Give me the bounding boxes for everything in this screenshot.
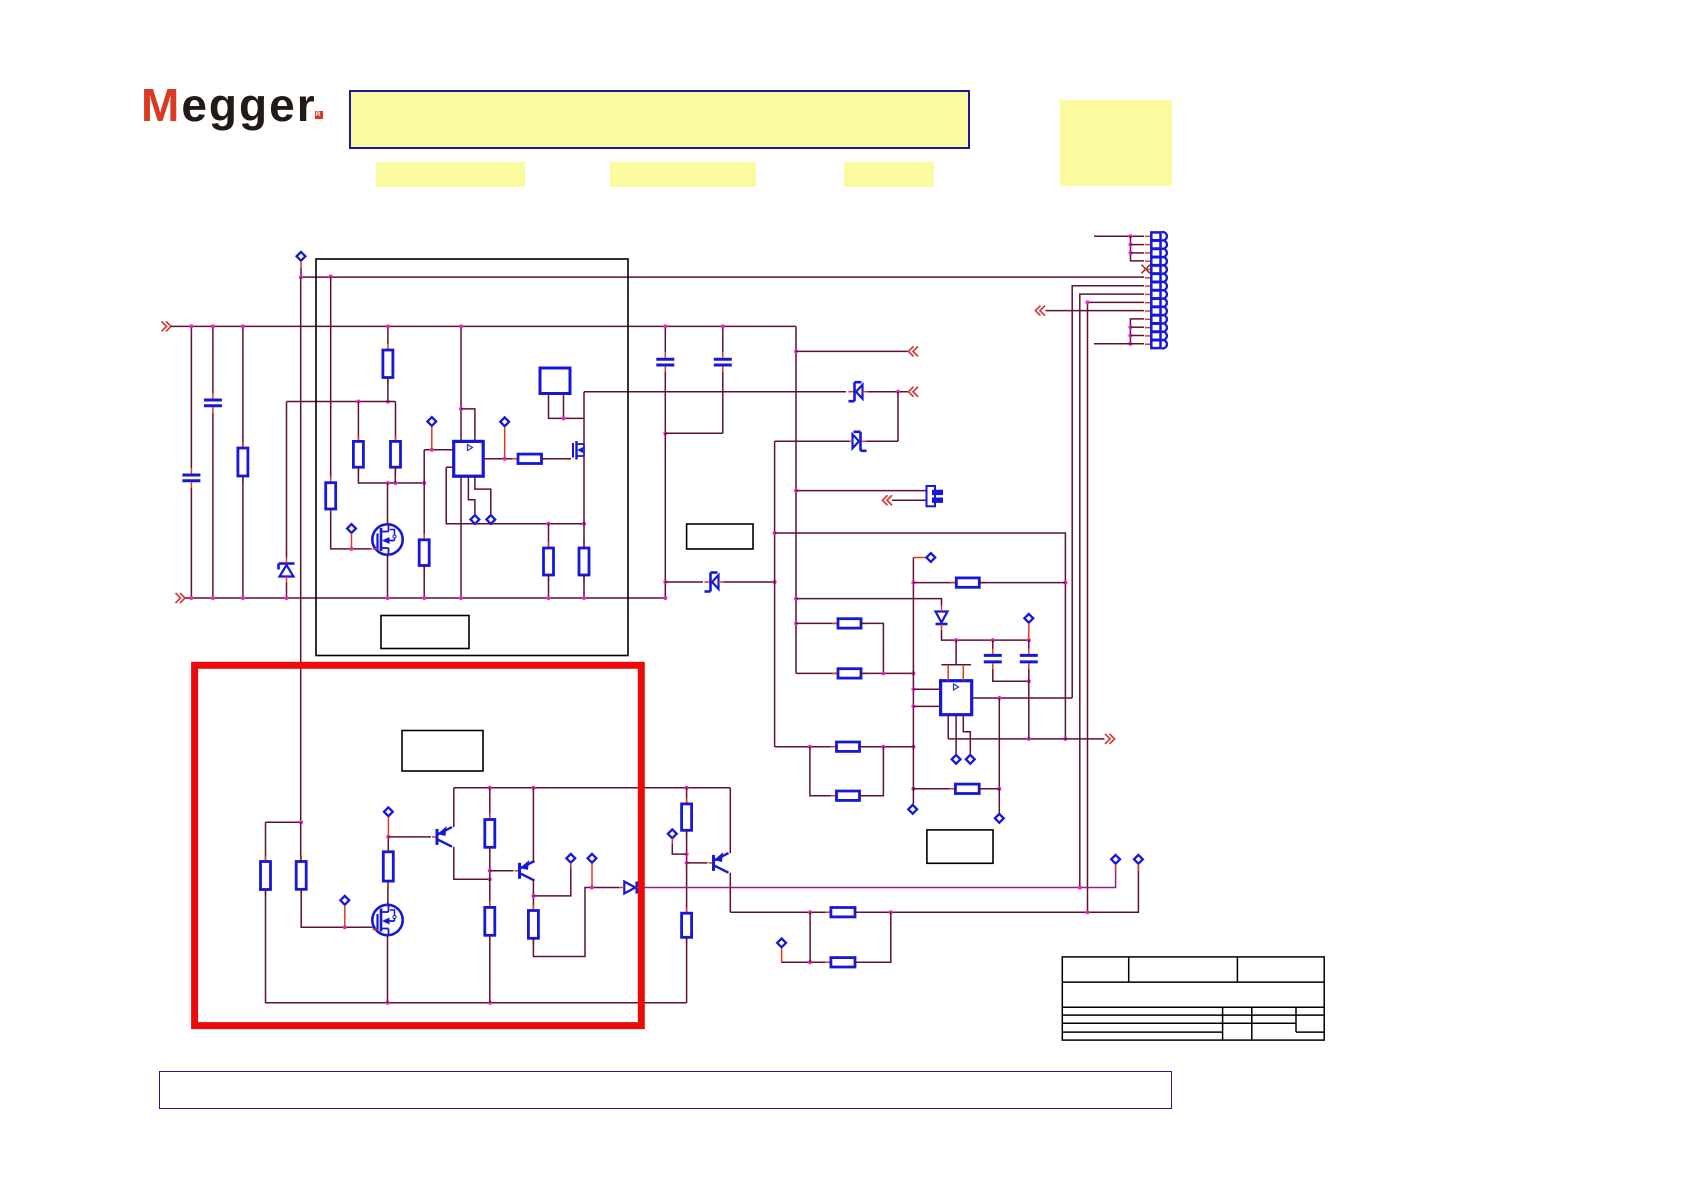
transformer T1: [540, 368, 570, 394]
wire IC2 top bar: [941, 664, 971, 666]
net port chevron C: [1036, 306, 1046, 316]
wire loop 962 right: [855, 912, 891, 962]
net node H diamond: [908, 805, 917, 814]
wire cap join: [665, 432, 723, 434]
capacitor C4: [714, 352, 732, 372]
junction: [721, 324, 725, 328]
wire bus pin9: [1088, 302, 1145, 912]
junction: [393, 481, 397, 485]
wire IC1 pinA jog: [468, 476, 475, 514]
junction: [211, 324, 215, 328]
transistor Q3 power MOSFET: [372, 902, 402, 938]
no-connect marker pin5: [1142, 265, 1151, 274]
zener diode D1: [279, 558, 295, 583]
junction: [189, 596, 193, 600]
resistor R1: [238, 442, 248, 482]
junction: [911, 687, 915, 691]
wire R17 top: [300, 822, 302, 861]
resistor R23: [682, 907, 692, 943]
resistor R17: [296, 856, 306, 896]
wire D2 to chevron: [868, 391, 909, 393]
net node C diamond: [427, 417, 436, 426]
resistor R4: [353, 435, 363, 473]
wire pin10 net: [1046, 310, 1145, 312]
wire loop 962 vert: [809, 912, 811, 962]
junction: [773, 580, 777, 584]
wire IC2 pin b2: [955, 715, 957, 755]
wire R2 to gate: [331, 509, 366, 549]
wire vert 913: [912, 558, 914, 785]
wire IC1 fb: [446, 466, 454, 468]
wire C2 top: [212, 326, 214, 393]
junction: [189, 324, 193, 328]
label box driver: [402, 731, 483, 772]
junction: [911, 745, 915, 749]
wire diamond K stub: [1028, 623, 1030, 640]
wire C5 out: [993, 669, 1029, 681]
wire pin12 stub: [1130, 326, 1144, 328]
junction: [997, 696, 1001, 700]
connector J2 2-pin header: [927, 486, 944, 506]
wire out net 912: [730, 911, 831, 913]
wire R8 top: [548, 524, 550, 548]
op-amp U2: [941, 681, 972, 715]
junction: [896, 390, 900, 394]
label box PSU: [381, 616, 469, 649]
wire C4 bottom: [722, 372, 724, 433]
box power supply outline: [316, 259, 628, 656]
resistor R3: [383, 344, 393, 384]
wire 999 end: [998, 789, 1000, 813]
wire R14 left: [913, 582, 956, 584]
wire T1 right leg: [563, 394, 565, 419]
wire diamond C stub: [431, 427, 433, 450]
transistor Q5: [515, 861, 535, 881]
wire diamond N stub: [387, 817, 389, 837]
wire R22 top: [686, 788, 688, 804]
junction: [386, 400, 390, 404]
wire R17 to gate: [301, 889, 366, 927]
logo registered mark: [315, 111, 323, 119]
wire D3 left: [775, 440, 849, 442]
wire pair2 right: [860, 746, 914, 748]
junction: [285, 596, 289, 600]
wire QB base: [490, 870, 514, 872]
junction: [808, 960, 812, 964]
junction: [1129, 251, 1133, 255]
wire D4 right: [724, 581, 775, 583]
wire pins11-14 bus: [1130, 319, 1144, 344]
junction: [422, 481, 426, 485]
junction: [1027, 679, 1031, 683]
junction: [488, 1001, 492, 1005]
wire IC2 pin b1: [947, 715, 949, 739]
wire out vert 999: [998, 698, 1000, 789]
wire Q1 gate: [366, 548, 372, 550]
junction: [1129, 243, 1133, 247]
wire diamond F stub: [504, 427, 506, 459]
wire Q4 collector: [454, 847, 490, 880]
junction: [1027, 737, 1031, 741]
wire C1 top: [190, 326, 192, 468]
wire IC1 vcc jog: [461, 409, 475, 442]
capacitor C6: [1020, 648, 1038, 669]
wire header bottom: [892, 499, 926, 501]
transistor Q4: [432, 827, 452, 847]
wire pair1 bottom: [796, 672, 838, 674]
wire pair2 loop right: [860, 747, 884, 796]
junction: [685, 861, 689, 865]
wire IC1 in vert: [423, 450, 425, 534]
wire R19 top: [489, 788, 491, 820]
wire D3 right: [867, 440, 899, 442]
wire pair1 top right: [861, 623, 883, 673]
wire IC1 in: [424, 449, 454, 451]
junction: [1063, 737, 1067, 741]
wire C2 bottom: [212, 413, 214, 598]
wire D1 top: [286, 402, 288, 558]
net port IN+ chevron: [162, 321, 172, 331]
wire Q3 drain: [387, 881, 389, 905]
wire top rail redbox: [454, 787, 731, 789]
wire R3 bottom: [387, 378, 389, 402]
wire pins1-4 bus: [1131, 236, 1145, 261]
wire C3 top: [664, 326, 666, 352]
junction: [1086, 910, 1090, 914]
wire Q6 emitter: [729, 788, 731, 854]
resistor R11: [832, 669, 867, 678]
junction: [422, 596, 426, 600]
wire C6 out: [1028, 669, 1030, 739]
junction: [343, 925, 347, 929]
wire top rail: [171, 325, 796, 327]
net node L diamond: [995, 814, 1004, 823]
label box right: [927, 830, 993, 863]
wire pin14 feed: [1094, 343, 1144, 345]
resistor R24: [825, 908, 861, 917]
wire IC2 bar feed: [955, 640, 957, 665]
junction: [794, 349, 798, 353]
junction: [1078, 886, 1082, 890]
wire branch left: [266, 821, 302, 823]
Megger logo: [141, 82, 317, 128]
junction: [329, 275, 333, 279]
wire R15 right: [979, 788, 999, 790]
wire Q3 source: [387, 935, 389, 1003]
junction: [663, 596, 667, 600]
junction: [211, 596, 215, 600]
junction: [881, 671, 885, 675]
net node P diamond: [588, 854, 597, 863]
net node Q diamond: [668, 829, 677, 838]
net node G diamond: [926, 553, 935, 562]
junction: [386, 835, 390, 839]
wire 598 to diode: [796, 599, 942, 606]
junction: [503, 457, 507, 461]
yellow box top right: [1060, 100, 1173, 186]
net node M diamond: [340, 896, 349, 905]
junction: [685, 852, 689, 856]
junction: [1129, 234, 1133, 238]
junction: [241, 324, 245, 328]
wire diamond A stub: [300, 261, 302, 268]
wire R6 bottom: [423, 566, 425, 599]
wire R9 top: [583, 524, 585, 548]
wire R9 bottom: [583, 575, 585, 598]
wire Q1 drain up: [387, 483, 389, 524]
wire R4 bottom: [358, 467, 424, 483]
wire D4 left: [665, 581, 703, 583]
junction: [386, 596, 390, 600]
transistor Q1 power MOSFET: [372, 522, 402, 558]
net node E diamond: [486, 515, 495, 524]
wire Q5 col branch: [533, 864, 570, 896]
wire feedback horiz: [287, 401, 396, 403]
wire C5 feed: [992, 640, 994, 649]
junction: [794, 489, 798, 493]
wire pin13 stub: [1130, 335, 1144, 337]
wire R7 to Q2 gate: [542, 458, 572, 460]
wire Q5 collector: [532, 881, 534, 911]
resistor R18: [383, 846, 393, 887]
junction: [889, 910, 893, 914]
wire R16 top: [265, 822, 267, 861]
junction: [911, 581, 915, 585]
junction: [911, 671, 915, 675]
junction: [773, 531, 777, 535]
junction: [299, 275, 303, 279]
wire C3 bottom: [664, 372, 666, 433]
wire pair2 main: [775, 746, 837, 748]
wire QA base: [388, 836, 431, 838]
resistor R15: [949, 784, 985, 793]
wire diamond Q stub: [671, 838, 673, 844]
junction: [997, 787, 1001, 791]
junction: [794, 621, 798, 625]
net node T diamond: [1111, 855, 1120, 864]
resistor R16: [261, 856, 271, 896]
junction: [1063, 581, 1067, 585]
wire R20 bottom: [489, 935, 491, 1003]
junction: [241, 596, 245, 600]
resistor R21: [528, 905, 538, 945]
resistor R8: [544, 542, 554, 581]
yellow banner: [349, 90, 970, 149]
zener diode D3: [848, 432, 867, 451]
wire R15 left: [913, 788, 956, 790]
resistor R5: [391, 435, 401, 473]
wire R5 bottom: [394, 467, 396, 483]
label box aux: [687, 524, 753, 549]
junction: [881, 745, 885, 749]
wire C6 feed: [1028, 640, 1030, 649]
wire R23 bottom: [686, 937, 688, 1003]
junction: [685, 786, 689, 790]
junction: [582, 522, 586, 526]
wire pair1 join: [861, 672, 913, 674]
wire diamond B stub: [351, 534, 353, 549]
junction: [430, 448, 434, 452]
junction: [582, 596, 586, 600]
junction: [663, 431, 667, 435]
wire pair1 top: [796, 622, 838, 624]
junction: [590, 886, 594, 890]
resistor R22: [682, 798, 692, 836]
transistor Q6: [709, 853, 729, 873]
junction: [911, 704, 915, 708]
wire IC1 vcc: [460, 326, 462, 441]
wire IC1 gnd pin: [460, 476, 462, 598]
net port chevron OUT: [1105, 734, 1115, 744]
highlight box red outline: [195, 665, 642, 1025]
wire purple net: [639, 864, 1116, 887]
wire C1 bottom: [190, 488, 192, 598]
wire R4 top: [357, 402, 359, 442]
diode D6: [619, 882, 642, 894]
wire R18 top: [387, 837, 389, 852]
wire pin2 stub: [1131, 244, 1145, 246]
wire Q2 drain: [583, 392, 585, 444]
junction: [1086, 300, 1090, 304]
wire long 533: [775, 533, 1066, 739]
junction: [1128, 342, 1132, 346]
junction: [488, 877, 492, 881]
capacitor C5: [984, 648, 1002, 669]
wire vert 796: [795, 326, 797, 673]
junction: [459, 324, 463, 328]
wire D1 bottom: [286, 583, 288, 599]
net node N diamond: [384, 807, 393, 816]
junction: [547, 522, 551, 526]
wire header top: [796, 490, 926, 492]
wire Q2 source: [583, 456, 585, 524]
junction: [562, 416, 566, 420]
wire IC2 out: [972, 697, 1072, 699]
junction: [663, 324, 667, 328]
wire diamond P stub: [591, 863, 593, 887]
junction: [663, 580, 667, 584]
junction: [386, 324, 390, 328]
wire R19 bottom: [489, 847, 491, 907]
wire T1 left leg: [549, 394, 585, 419]
wire diode out: [942, 630, 1029, 640]
net node O diamond: [566, 854, 575, 863]
wire IC2 pin b3: [963, 715, 970, 755]
resistor R9: [579, 542, 589, 581]
wire vert 913 top: [913, 557, 925, 559]
wire pin6 long net: [301, 268, 1144, 277]
zener diode D4: [705, 573, 724, 592]
capacitor C3: [656, 352, 674, 372]
net node K diamond: [1024, 614, 1033, 623]
resistor R20: [485, 901, 495, 941]
wire pin3 stub: [1131, 252, 1145, 254]
wire IC1 out: [483, 458, 518, 460]
resistor R13: [831, 791, 866, 800]
transistor Q2 small MOSFET: [573, 441, 584, 460]
wire diamond Q elbow: [672, 844, 686, 854]
junction: [488, 786, 492, 790]
wire 912 right: [855, 864, 1138, 912]
junction: [954, 638, 958, 642]
net port IN- chevron: [176, 593, 186, 603]
junction: [386, 481, 390, 485]
capacitor C2: [204, 393, 222, 413]
wire Q4 emitter: [453, 788, 455, 827]
resistor R2: [326, 477, 336, 515]
wire QC base: [687, 862, 708, 864]
resistor R19: [485, 814, 495, 854]
wire gate net vertical: [330, 277, 332, 477]
junction: [1027, 638, 1031, 642]
net node S diamond: [777, 939, 786, 948]
junction: [459, 596, 463, 600]
diode D5: [936, 606, 948, 631]
wire loop 962 left: [782, 961, 831, 963]
wire bus pin7: [1072, 286, 1144, 698]
wire to chevron 351: [796, 350, 908, 352]
wire diamond S stub: [781, 948, 783, 962]
net node J diamond: [966, 755, 975, 764]
junction: [1128, 325, 1132, 329]
junction: [356, 400, 360, 404]
wire IC2 in1: [913, 688, 940, 690]
junction: [531, 786, 535, 790]
junction: [531, 894, 535, 898]
junction: [299, 820, 303, 824]
yellow chip 3: [844, 162, 935, 187]
junction: [794, 597, 798, 601]
yellow chip 2: [610, 162, 756, 187]
wire R14 right: [979, 582, 1065, 584]
wire Q1 source down: [387, 555, 389, 598]
wire R8 bottom: [548, 575, 550, 598]
wire Q6 collector: [729, 873, 731, 913]
wire vert 913 end: [912, 784, 914, 804]
wire IC1 fb vert: [446, 467, 584, 524]
capacitor C1: [182, 468, 200, 488]
wire R21 loop: [533, 888, 619, 957]
resistor R10: [832, 619, 867, 628]
wire Q3 gate: [366, 926, 373, 928]
junction: [911, 787, 915, 791]
junction: [991, 638, 995, 642]
wire pair2 loop left: [810, 747, 837, 796]
net node I diamond: [952, 755, 961, 764]
wire bus left vertical: [300, 277, 302, 822]
zener diode D2: [849, 382, 868, 401]
net node B diamond: [347, 524, 356, 533]
net node R diamond: [1134, 855, 1143, 864]
wire R1 top: [242, 326, 244, 448]
wire Q5 emitter: [532, 788, 534, 861]
junction: [459, 407, 463, 411]
resistor R6: [419, 534, 429, 572]
yellow chip 1: [376, 162, 525, 187]
net port chevron B: [883, 495, 893, 505]
wire C4 top: [722, 326, 724, 352]
junction: [386, 1001, 390, 1005]
junction: [808, 910, 812, 914]
wire bottom rail: [185, 597, 665, 599]
wire diamond M stub: [344, 905, 346, 927]
wire IC1 pinB jog: [475, 476, 491, 514]
junction: [350, 547, 354, 551]
resistor R12: [831, 742, 866, 751]
wire chevron out: [948, 738, 1104, 740]
net port chevron A: [909, 346, 919, 356]
junction: [488, 869, 492, 873]
